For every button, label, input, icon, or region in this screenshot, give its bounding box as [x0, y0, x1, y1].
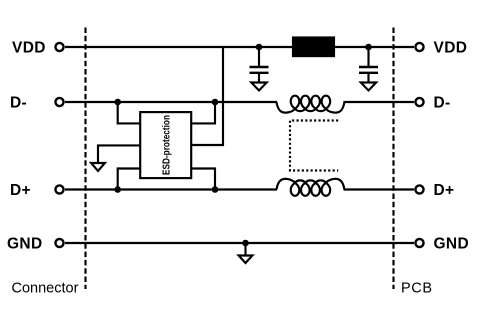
- ground under C1: [251, 83, 266, 91]
- svg-text:D+: D+: [434, 182, 455, 199]
- port VDD left: [55, 43, 63, 51]
- svg-text:Connector: Connector: [12, 281, 79, 297]
- junction D+ bottom-right: [212, 186, 219, 193]
- junction GND center: [242, 240, 249, 247]
- svg-text:D-: D-: [434, 95, 451, 112]
- PCB boundary dashed line: [392, 28, 394, 290]
- wire VDD branch to ESD pin: [192, 47, 224, 145]
- ground on GND rail: [239, 256, 253, 264]
- wire VDD rail: [65, 46, 414, 48]
- ESD-protection box U1: [140, 112, 191, 178]
- Connector boundary dashed line: [84, 28, 86, 290]
- junction C1/VDD: [256, 44, 263, 51]
- port VDD right: [415, 43, 423, 51]
- wire GND stub: [244, 243, 246, 256]
- common-mode choke winding on D+: [277, 179, 345, 196]
- wire ESD pin bottom-right to D+: [192, 169, 216, 190]
- port D- left: [55, 98, 63, 106]
- port D- right: [415, 98, 423, 106]
- wire D+ rail: [65, 188, 414, 190]
- ground at ESD mid-left: [91, 163, 105, 171]
- wire ESD pin mid-left to ground: [98, 145, 140, 163]
- port D+ right: [415, 185, 423, 193]
- capacitor C1: [250, 47, 269, 83]
- port GND left: [55, 239, 63, 247]
- ferrite bead on VDD: [293, 38, 334, 57]
- choke core dotted box: [290, 121, 338, 171]
- port GND right: [415, 239, 423, 247]
- svg-text:GND: GND: [7, 236, 43, 253]
- svg-text:D+: D+: [10, 182, 31, 199]
- svg-text:GND: GND: [434, 236, 470, 253]
- wire ESD pin top-right to D-: [192, 102, 216, 123]
- svg-text:VDD: VDD: [12, 40, 46, 57]
- svg-text:VDD: VDD: [434, 40, 468, 57]
- svg-text:D-: D-: [10, 95, 27, 112]
- wire ESD pin bottom-left to D+: [118, 169, 141, 190]
- capacitor C2: [359, 47, 378, 83]
- junction D- top-right: [212, 99, 219, 106]
- wire D- rail: [65, 101, 414, 103]
- svg-text:ESD-protection: ESD-protection: [161, 115, 173, 175]
- junction C2/VDD: [365, 44, 372, 51]
- common-mode choke winding on D-: [277, 96, 345, 113]
- junction D- top-left: [114, 99, 121, 106]
- ground under C2: [361, 83, 376, 91]
- wire ESD pin top-left to D-: [118, 102, 141, 123]
- junction D+ bottom-left: [114, 186, 121, 193]
- svg-text:PCB: PCB: [401, 281, 433, 297]
- wire GND rail: [65, 242, 414, 244]
- port D+ left: [55, 185, 63, 193]
